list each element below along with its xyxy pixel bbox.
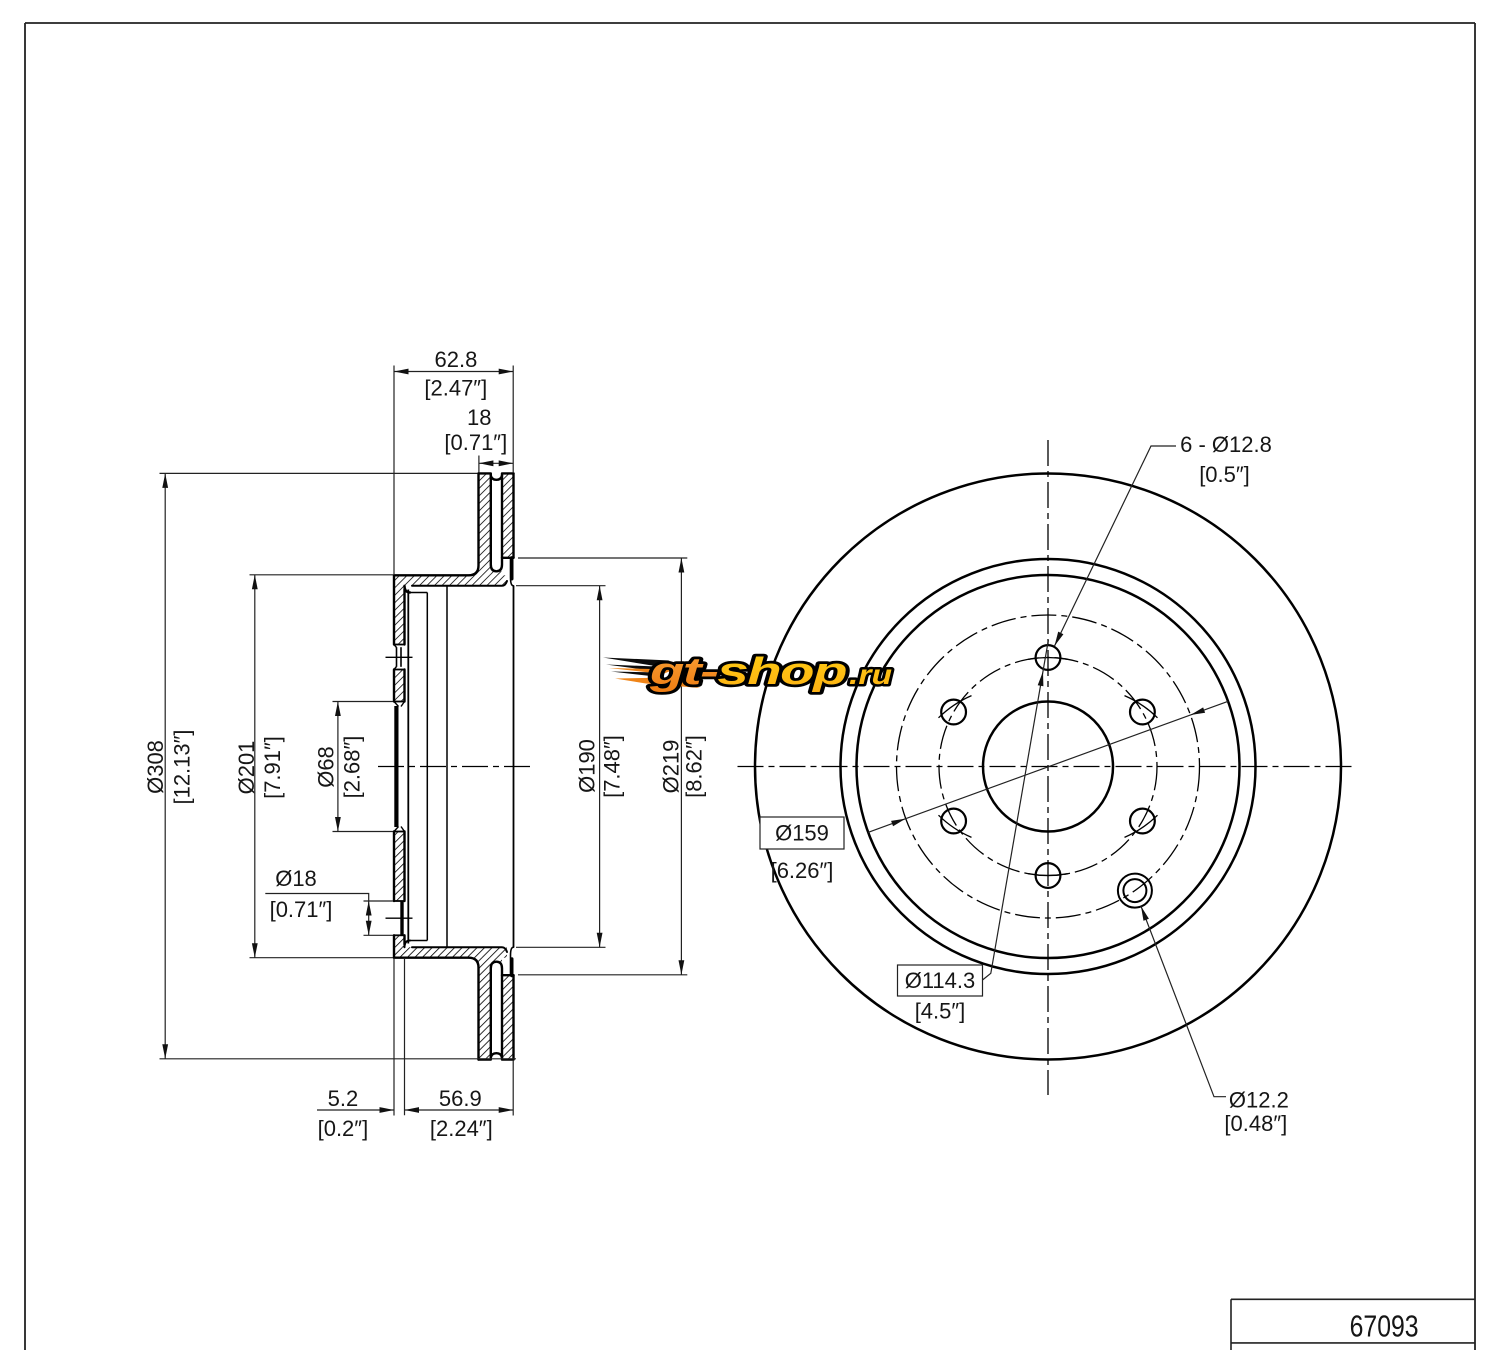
svg-text:5.2: 5.2 xyxy=(328,1086,359,1111)
hatched metal regions xyxy=(394,473,514,1059)
wheel stud hole 1 (top) xyxy=(1036,645,1061,670)
svg-text:[2.68″]: [2.68″] xyxy=(340,736,365,799)
svg-text:Ø114.3: Ø114.3 xyxy=(905,968,976,993)
drum back wall fillet edge line xyxy=(426,593,428,941)
svg-text:[0.2″]: [0.2″] xyxy=(318,1116,369,1141)
leader Ø159 xyxy=(868,701,1228,832)
svg-text:[0.5″]: [0.5″] xyxy=(1199,462,1250,487)
stud circle Ø114.3 (dash-dot) xyxy=(939,658,1157,876)
label box Ø159 xyxy=(760,817,844,849)
hat inner step edge bottom xyxy=(410,940,427,942)
svg-text:Ø219: Ø219 xyxy=(658,740,683,794)
disc outboard face (left) + fillet into hat band xyxy=(394,473,479,575)
wheel stud hole 4 (bottom) xyxy=(1036,863,1061,888)
Ø308 dim line xyxy=(164,473,166,1058)
wheel stud hole 5 xyxy=(941,809,966,834)
Ø190 extension lines xyxy=(516,585,606,587)
center bore Ø68 xyxy=(983,702,1113,832)
svg-text:[7.91″]: [7.91″] xyxy=(260,736,285,799)
speed streaks xyxy=(603,658,670,666)
hat outer circle Ø201 xyxy=(857,575,1240,958)
disc inner edge at vent inlet (bottom) xyxy=(502,974,514,976)
svg-text:Ø159: Ø159 xyxy=(775,821,829,846)
5.2 dim tail xyxy=(317,1109,394,1111)
extension line left (62.8 / 5.2 datum) xyxy=(393,366,395,576)
svg-text:[0.71″]: [0.71″] xyxy=(444,430,507,455)
title block table bottom right xyxy=(1231,1299,1475,1350)
drum rim end face (top) xyxy=(510,558,513,579)
hat band (bottom) inner surface xyxy=(412,947,507,952)
leader Ø114.3 xyxy=(983,640,1049,980)
parking brake access hole Ø18 counterbore xyxy=(1118,874,1152,908)
wheel stud hole 3 xyxy=(1130,809,1155,834)
drum rim projected edge line xyxy=(513,586,515,947)
svg-text:Ø190: Ø190 xyxy=(574,739,599,793)
extension line 18 (top) xyxy=(478,456,480,473)
stud circle ticks through holes xyxy=(939,657,1158,875)
label box Ø114.3 xyxy=(898,965,983,996)
friction surface inner circle Ø219 xyxy=(841,559,1256,974)
svg-text:56.9: 56.9 xyxy=(439,1086,482,1111)
dimension texts (section) xyxy=(143,347,706,1141)
hat inner machined step line A xyxy=(407,590,409,944)
vent inlet step (bottom) xyxy=(511,947,514,975)
svg-text:.ru: .ru xyxy=(849,659,892,690)
vertical centerline xyxy=(1047,440,1049,1095)
rotor disc friction plates (bottom) xyxy=(479,958,491,1060)
svg-text:[0.48″]: [0.48″] xyxy=(1224,1111,1287,1136)
56.9 extension line left xyxy=(404,958,406,1115)
disc outer edge (top) with vent notch xyxy=(479,473,514,479)
dim line 62.8 xyxy=(394,371,513,373)
svg-text:[0.71″]: [0.71″] xyxy=(270,897,333,922)
svg-text:Ø18: Ø18 xyxy=(275,866,317,891)
drum rim end face (bottom) xyxy=(510,959,513,976)
vent channel walls (top) xyxy=(491,476,502,572)
bolt hole circle Ø159 (dash-dot) xyxy=(897,615,1200,918)
vent inlet step (top) xyxy=(511,558,514,586)
rotor disc outboard-left friction plate (top) xyxy=(479,473,491,575)
svg-text:Ø68: Ø68 xyxy=(314,746,339,788)
Ø18 leader underline + elbow xyxy=(265,894,368,902)
hat flange band (top) xyxy=(394,575,507,586)
main horizontal centerline xyxy=(378,766,533,768)
mounting plate inner face xyxy=(405,586,411,945)
svg-text:Ø201: Ø201 xyxy=(234,741,259,795)
svg-text:18: 18 xyxy=(467,405,491,430)
svg-text:Ø308: Ø308 xyxy=(143,740,168,794)
dim line 18 xyxy=(479,462,513,464)
extension line right (62.8 / 56.9) xyxy=(512,366,514,474)
Ø68 dim line xyxy=(337,702,339,832)
svg-text:Ø12.2: Ø12.2 xyxy=(1229,1088,1289,1113)
wheel stud hole (section, top) xyxy=(394,645,405,670)
Ø68 extension lines xyxy=(333,701,394,703)
hat band (bottom) outer surface xyxy=(394,958,479,1060)
56.9 dim line xyxy=(405,1109,514,1111)
svg-text:[8.62″]: [8.62″] xyxy=(681,735,706,798)
plate to bottom band outer corner xyxy=(393,957,395,959)
section outline: disc + hat profile (top half) xyxy=(394,473,514,1059)
Ø18 dim line xyxy=(368,901,370,935)
disc inner edge at vent inlet (top) xyxy=(502,557,514,559)
Ø219 extension lines xyxy=(518,557,687,559)
svg-text:gt-shop: gt-shop xyxy=(649,651,846,693)
disc inboard face (right, top) xyxy=(512,473,514,557)
hat inner step edge top xyxy=(410,592,427,594)
arrowheads section dims xyxy=(162,369,684,1113)
leader 6-Ø12.8 xyxy=(1055,446,1177,646)
mounting face plate segments (between holes) xyxy=(394,586,405,645)
rotor disc inboard-right friction plate (top) xyxy=(502,473,514,557)
bottom plate inner fillet xyxy=(405,941,411,948)
wheel stud hole 6 xyxy=(941,700,966,725)
leader Ø12.2 xyxy=(1141,906,1226,1096)
wheel stud hole 2 xyxy=(1130,700,1155,725)
mounting plate outer face xyxy=(393,575,395,957)
svg-text:[2.24″]: [2.24″] xyxy=(430,1116,493,1141)
hat flange band (bottom) xyxy=(394,947,507,958)
svg-text:67093: 67093 xyxy=(1350,1309,1419,1344)
svg-text:[12.13″]: [12.13″] xyxy=(170,729,195,804)
Ø201 dim line xyxy=(254,575,256,958)
drum surface relief edge line xyxy=(446,587,448,947)
Ø18 extension lines xyxy=(364,900,394,902)
svg-text:[2.47″]: [2.47″] xyxy=(424,375,487,400)
rotor outer circle Ø308 xyxy=(755,474,1341,1060)
access hole centerline tick xyxy=(386,917,413,919)
svg-text:[7.48″]: [7.48″] xyxy=(600,735,625,798)
svg-text:6 - Ø12.8: 6 - Ø12.8 xyxy=(1180,432,1272,457)
Ø190 dim line xyxy=(599,586,601,948)
parking brake access hole Ø12.2 xyxy=(1123,879,1146,902)
svg-text:[6.26″]: [6.26″] xyxy=(771,858,834,883)
parking brake access hole Ø18 (section, bottom) xyxy=(394,901,405,935)
front view texts xyxy=(771,432,1289,1136)
Ø308 extension lines xyxy=(160,472,478,474)
stud hole centerline tick xyxy=(386,656,413,658)
disc outer edge (bottom) with vent notch xyxy=(479,1053,514,1059)
svg-text:[4.5″]: [4.5″] xyxy=(915,999,966,1024)
Ø219 dim line xyxy=(680,558,682,975)
Ø201 extension lines xyxy=(250,574,394,576)
svg-text:62.8: 62.8 xyxy=(434,347,477,372)
hat band inner surface (top) xyxy=(412,581,507,586)
vent channel walls (bottom) xyxy=(491,962,502,1058)
disc inboard face (right, bottom) xyxy=(512,975,514,1059)
center bore (section) xyxy=(394,702,405,832)
